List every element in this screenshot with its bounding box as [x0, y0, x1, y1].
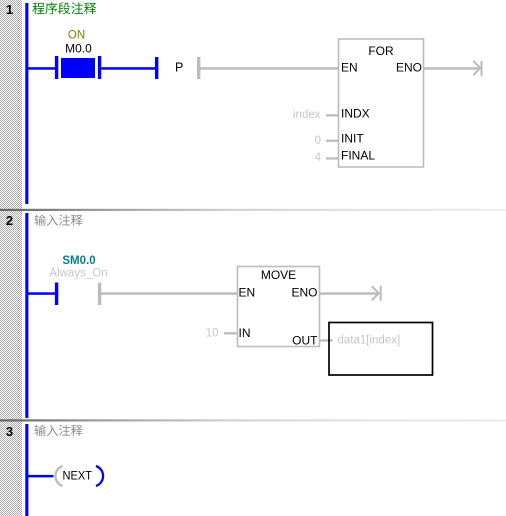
svg-text:EN: EN — [239, 286, 256, 300]
left margin dithered gutter — [0, 0, 22, 516]
wire stub OUT — [320, 339, 333, 341]
wire contact to MOVE box EN — [101, 292, 237, 295]
svg-text:Always_On: Always_On — [49, 268, 107, 280]
network 3 comment 输入注释 — [35, 425, 83, 436]
wire stub IN — [224, 332, 238, 334]
wire rail to coil NEXT — [28, 475, 54, 478]
network separator 1 — [0, 209, 506, 211]
selection box around OUT operand — [329, 323, 433, 376]
svg-text:SM0.0: SM0.0 — [62, 255, 95, 267]
svg-text:M0.0: M0.0 — [65, 42, 92, 56]
wire rail to contact SM0.0 — [28, 292, 55, 295]
svg-text:1: 1 — [6, 2, 13, 17]
wire P contact to FOR box EN — [200, 67, 338, 70]
svg-text:FINAL: FINAL — [341, 149, 375, 163]
network 1 comment 程序段注释 — [32, 2, 96, 14]
coil NEXT right parenthesis — [96, 466, 103, 486]
wire rail to contact M0.0 — [28, 67, 55, 70]
svg-text:2: 2 — [6, 213, 13, 228]
svg-text:EN: EN — [341, 61, 358, 75]
svg-text:FOR: FOR — [368, 44, 394, 58]
svg-text:ON: ON — [68, 30, 85, 42]
wire stub INIT — [326, 140, 339, 142]
network separator 2 — [0, 419, 506, 421]
positive edge contact P — [155, 57, 200, 79]
svg-text:4: 4 — [315, 152, 322, 164]
svg-text:INDX: INDX — [341, 107, 370, 121]
svg-text:INIT: INIT — [341, 132, 364, 146]
left power rail network 3 — [25, 424, 28, 516]
open branch arrow network 2 — [372, 286, 381, 301]
contact ON M0.0 (closed, power flow) — [55, 56, 101, 79]
svg-text:P: P — [175, 61, 183, 75]
wire stub FINAL — [326, 157, 339, 159]
svg-text:0: 0 — [315, 135, 321, 147]
MOVE box U2 — [238, 267, 320, 347]
svg-text:OUT: OUT — [292, 334, 318, 348]
contact SM0.0 Always_On — [55, 283, 101, 306]
svg-text:NEXT: NEXT — [63, 469, 93, 483]
svg-text:IN: IN — [239, 326, 251, 340]
left power rail network 2 — [25, 213, 28, 418]
svg-text:MOVE: MOVE — [261, 268, 296, 282]
coil NEXT left parenthesis — [55, 466, 62, 486]
wire contact to P contact — [101, 67, 155, 70]
svg-text:3: 3 — [6, 424, 13, 439]
svg-text:ENO: ENO — [291, 286, 317, 300]
svg-text:10: 10 — [206, 328, 219, 340]
svg-text:ENO: ENO — [396, 61, 422, 75]
FOR box U1 — [339, 39, 424, 167]
open branch arrow network 1 — [473, 61, 481, 76]
wire stub INDX — [326, 114, 339, 116]
wire ENO open branch (MOVE) — [320, 292, 379, 295]
svg-text:data1[index]: data1[index] — [338, 335, 401, 347]
left power rail network 1 — [25, 3, 28, 204]
wire ENO open branch — [424, 67, 480, 70]
svg-text:index: index — [293, 109, 321, 121]
network 2 comment 输入注释 — [35, 214, 83, 225]
